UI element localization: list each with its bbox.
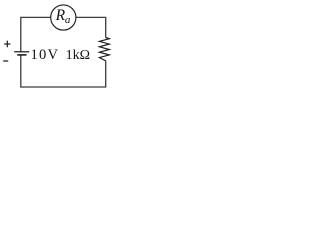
svg-text:a: a [65, 14, 71, 26]
label R_a [55, 7, 71, 26]
battery V1 long plate (positive) [14, 51, 29, 53]
svg-text:10V: 10V [31, 47, 60, 63]
resistor R1 zigzag [99, 38, 109, 61]
wire top-left segment [21, 17, 51, 51]
wire bottom segment [21, 55, 106, 87]
battery V1 short plate (negative) [17, 54, 26, 56]
wire top-right segment [76, 17, 106, 37]
svg-text:1kΩ: 1kΩ [66, 48, 90, 63]
plus polarity sign [4, 41, 10, 48]
ammeter circle U1 (R_a) [51, 5, 76, 30]
minus polarity sign [3, 60, 8, 62]
